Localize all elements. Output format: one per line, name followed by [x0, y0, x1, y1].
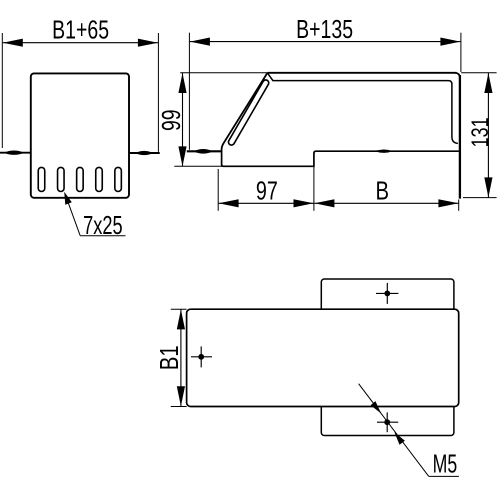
dimension 99	[156, 73, 267, 167]
svg-text:B+135: B+135	[296, 14, 353, 43]
slot 3	[77, 167, 84, 191]
hole mark bottom tab	[377, 412, 398, 432]
dimension B1+65	[2, 15, 158, 152]
svg-text:M5: M5	[433, 449, 458, 478]
svg-text:99: 99	[156, 109, 185, 131]
side view top edge	[267, 73, 460, 78]
side view right end plate	[459, 75, 461, 199]
dimension B1	[154, 309, 186, 406]
dimension B+135	[189, 14, 461, 150]
hole mark top tab	[376, 283, 398, 304]
side view sloped wall inner slot	[227, 79, 269, 146]
joint mark on bottom line	[375, 150, 392, 153]
bottom view wide tab rectangle	[321, 279, 454, 436]
right flange	[129, 151, 160, 155]
side view sloped wall outer line	[222, 73, 268, 149]
dimension 97	[218, 166, 314, 211]
dimension 131	[461, 73, 496, 198]
svg-text:131: 131	[467, 117, 493, 147]
svg-text:B1+65: B1+65	[52, 15, 109, 44]
slot 4	[96, 167, 103, 191]
svg-text:B1: B1	[154, 345, 183, 370]
side view inner edge	[268, 73, 458, 143]
bottom view main body	[187, 309, 459, 406]
left flange	[0, 151, 32, 155]
slot 5	[115, 167, 122, 191]
svg-text:97: 97	[256, 176, 278, 205]
slot 2	[58, 167, 65, 191]
front view outline	[31, 73, 129, 197]
hole mark left	[191, 346, 212, 367]
svg-text:B: B	[376, 176, 390, 205]
svg-text:7x25: 7x25	[83, 211, 122, 240]
slot 1	[38, 167, 45, 191]
side view bottom contour with step	[222, 149, 459, 166]
leader M5	[359, 384, 459, 479]
dimension B	[314, 176, 458, 211]
leader 7x25	[64, 192, 125, 240]
side view foot	[187, 149, 223, 154]
